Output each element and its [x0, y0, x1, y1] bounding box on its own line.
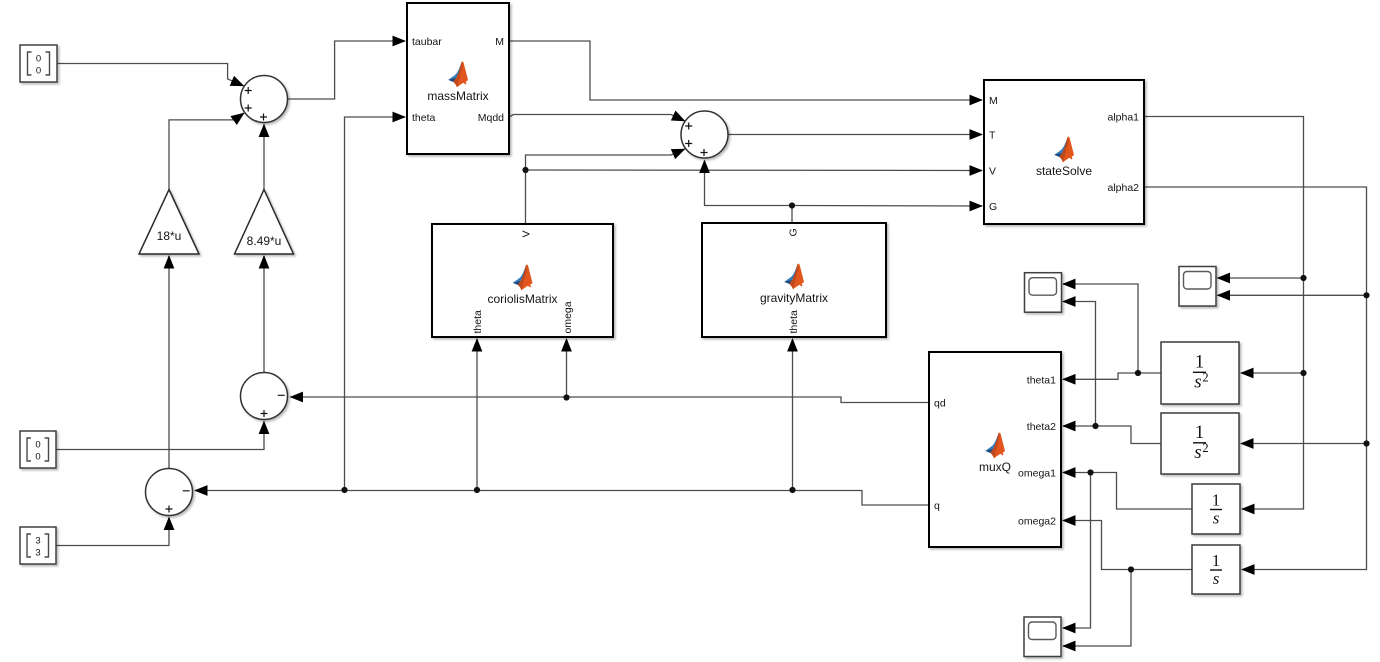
wire node V to sum2 — [526, 149, 685, 170]
svg-text:theta2: theta2 — [1027, 421, 1056, 433]
wire alpha2 branch to integrator 1/s2 b — [1241, 443, 1367, 445]
gain G2 8.49*u — [235, 190, 294, 255]
svg-text:0: 0 — [35, 452, 40, 463]
svg-text:T: T — [989, 130, 996, 142]
svg-text:3: 3 — [35, 536, 40, 547]
wire node qd to coriolisMatrix omega — [566, 339, 568, 398]
svg-text:theta: theta — [472, 310, 484, 334]
svg-text:s: s — [1194, 372, 1201, 393]
sum S3 — [241, 373, 288, 420]
svg-text:G: G — [989, 201, 997, 213]
wire node G to sum2 — [705, 161, 793, 206]
wire integrator 1/s a to muxQ omega1 — [1063, 473, 1192, 510]
svg-text:omega1: omega1 — [1018, 468, 1056, 480]
MATLAB function coriolisMatrix — [432, 224, 613, 337]
junction alpha2-scope2 — [1363, 292, 1369, 298]
wire node omega1 to scope3 — [1063, 473, 1091, 629]
svg-text:qd: qd — [934, 398, 946, 410]
svg-text:s: s — [1213, 509, 1220, 528]
junction q-massMatrix — [341, 487, 347, 493]
junction alpha1-scope2 — [1300, 275, 1306, 281]
constant C1 [0;0] — [20, 45, 57, 82]
wire sum1 to massMatrix taubar — [288, 41, 406, 99]
constant C2 [0;0] — [20, 431, 56, 468]
svg-text:coriolisMatrix: coriolisMatrix — [487, 292, 557, 306]
scope Sc1 — [1025, 273, 1062, 313]
junction omega2 — [1128, 566, 1134, 572]
wire sum3 to gain 8.49*u — [263, 256, 265, 373]
svg-text:1: 1 — [1195, 422, 1205, 443]
junction omega1 — [1087, 469, 1093, 475]
svg-text:omega2: omega2 — [1018, 516, 1056, 528]
wire node omega2 to scope3 — [1063, 570, 1131, 647]
svg-text:M: M — [495, 36, 504, 48]
svg-text:Mqdd: Mqdd — [478, 112, 504, 124]
svg-text:theta: theta — [412, 112, 436, 124]
wire node G to stateSolve G — [792, 205, 982, 208]
wire stateSolve alpha2 trunk — [1144, 187, 1367, 570]
wire coriolisMatrix V up to node V — [525, 170, 527, 224]
svg-text:theta: theta — [788, 310, 800, 334]
svg-text:alpha1: alpha1 — [1107, 112, 1139, 124]
wire node q to gravityMatrix theta — [792, 339, 794, 490]
wire muxQ qd to sum3 — [291, 397, 930, 403]
wire gain 18*u to sum1 — [169, 113, 244, 189]
wire sum4 to gain 18*u — [168, 256, 170, 469]
wire gain 8.49*u to sum1 — [263, 125, 265, 190]
svg-text:M: M — [989, 95, 998, 107]
wire const3 to sum4 — [56, 518, 169, 546]
junction qd — [563, 394, 569, 400]
junction alpha2-int — [1363, 440, 1369, 446]
svg-text:1: 1 — [1212, 491, 1221, 510]
MATLAB function massMatrix — [407, 3, 509, 154]
integrator I2 1/s2 — [1161, 413, 1239, 474]
svg-text:s: s — [1194, 442, 1201, 463]
wire alpha1 branch to scope2 — [1218, 277, 1304, 279]
junction alpha1-int — [1300, 370, 1306, 376]
svg-text:G: G — [788, 228, 800, 236]
wire sum2 to stateSolve T — [728, 134, 982, 136]
svg-text:0: 0 — [36, 54, 41, 65]
svg-text:alpha2: alpha2 — [1107, 182, 1139, 194]
constant C3 [3;3] — [20, 527, 56, 564]
svg-text:taubar: taubar — [412, 36, 442, 48]
wire node theta2 to scope1 — [1063, 302, 1096, 427]
wire const1 to sum1 — [57, 64, 244, 86]
junction theta2 — [1092, 423, 1098, 429]
svg-text:V: V — [521, 230, 533, 237]
junction node G — [789, 202, 795, 208]
svg-text:3: 3 — [35, 548, 40, 559]
wire alpha1 branch to integrator 1/s2 a — [1241, 372, 1304, 374]
svg-text:V: V — [989, 166, 996, 178]
sum S1 — [241, 76, 288, 123]
svg-text:theta1: theta1 — [1027, 374, 1056, 386]
svg-text:8.49*u: 8.49*u — [247, 234, 282, 248]
wire node q to massMatrix theta — [345, 117, 406, 490]
wire gravityMatrix G up to node G — [791, 206, 793, 224]
MATLAB function muxQ — [929, 352, 1061, 547]
svg-text:massMatrix: massMatrix — [427, 89, 488, 103]
sum S4 — [146, 469, 193, 516]
svg-text:muxQ: muxQ — [979, 460, 1011, 474]
svg-text:2: 2 — [1202, 371, 1208, 385]
gain G1 18*u — [139, 190, 199, 255]
wire const2 to sum3 — [56, 422, 264, 450]
svg-text:omega: omega — [562, 301, 574, 333]
wire node V to stateSolve V — [526, 169, 983, 172]
sum S2 — [681, 111, 728, 158]
svg-text:1: 1 — [1195, 352, 1205, 373]
svg-text:0: 0 — [36, 66, 41, 77]
wire massMatrix Mqdd to sum2 — [509, 115, 685, 121]
wire node theta1 to scope1 — [1063, 284, 1138, 373]
svg-text:2: 2 — [1202, 441, 1208, 455]
svg-text:18*u: 18*u — [157, 229, 182, 243]
wire massMatrix M to stateSolve M — [509, 41, 982, 100]
svg-text:q: q — [934, 500, 940, 512]
wire alpha2 branch to scope2 — [1218, 294, 1367, 296]
wire integrator 1/s b to muxQ omega2 — [1063, 521, 1192, 570]
wire integrator 1/s2 a to muxQ theta1 — [1063, 373, 1161, 379]
svg-text:stateSolve: stateSolve — [1036, 164, 1092, 178]
wire stateSolve alpha1 trunk — [1144, 117, 1304, 510]
integrator I1 1/s2 — [1161, 342, 1239, 404]
junction theta1 — [1135, 370, 1141, 376]
integrator I3 1/s — [1192, 484, 1240, 534]
junction q-coriolis — [474, 487, 480, 493]
svg-text:0: 0 — [35, 440, 40, 451]
scope Sc2 — [1179, 267, 1216, 307]
scope Sc3 — [1024, 617, 1061, 657]
wire integrator 1/s2 b to muxQ theta2 — [1063, 426, 1161, 444]
MATLAB function gravityMatrix — [702, 223, 886, 337]
wire node q to coriolisMatrix theta — [476, 339, 478, 490]
junction q-gravity — [789, 487, 795, 493]
svg-text:gravityMatrix: gravityMatrix — [760, 291, 828, 305]
wire muxQ q to sum4 — [195, 491, 929, 506]
MATLAB function stateSolve — [984, 80, 1144, 224]
svg-text:1: 1 — [1212, 551, 1221, 570]
junction node V — [522, 167, 528, 173]
svg-text:s: s — [1213, 569, 1220, 588]
integrator I4 1/s — [1192, 545, 1240, 594]
